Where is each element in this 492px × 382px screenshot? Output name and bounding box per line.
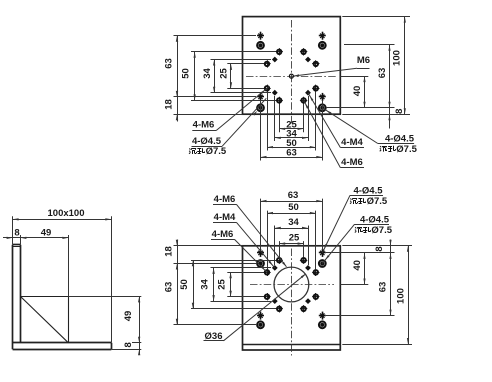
svg-text:Ø7.5: Ø7.5 <box>367 196 388 207</box>
svg-text:25: 25 <box>219 68 230 79</box>
svg-text:100: 100 <box>391 50 402 66</box>
svg-text:63: 63 <box>286 148 297 159</box>
svg-text:50: 50 <box>288 202 299 213</box>
svg-text:8: 8 <box>14 227 19 238</box>
svg-text:Ø7.5: Ø7.5 <box>206 146 227 157</box>
svg-text:63: 63 <box>288 190 299 201</box>
svg-text:Ø36: Ø36 <box>205 331 223 342</box>
svg-text:63: 63 <box>378 282 389 293</box>
svg-text:25: 25 <box>217 279 228 290</box>
svg-text:50: 50 <box>179 279 190 290</box>
svg-text:4-M4: 4-M4 <box>341 137 363 148</box>
svg-text:4-Ø4.5: 4-Ø4.5 <box>360 214 390 225</box>
svg-text:M6: M6 <box>357 55 370 66</box>
svg-text:40: 40 <box>352 260 363 271</box>
svg-text:4-M6: 4-M6 <box>212 229 234 240</box>
svg-text:40: 40 <box>352 86 363 97</box>
svg-text:63: 63 <box>377 68 388 79</box>
svg-text:100x100: 100x100 <box>48 208 85 219</box>
svg-text:34: 34 <box>202 68 213 79</box>
svg-text:Ø7.5: Ø7.5 <box>396 144 417 155</box>
svg-text:8: 8 <box>123 342 134 347</box>
svg-text:4-Ø4.5: 4-Ø4.5 <box>353 185 383 196</box>
svg-text:18: 18 <box>164 246 175 257</box>
svg-text:4-M6: 4-M6 <box>341 157 363 168</box>
svg-text:4-M6: 4-M6 <box>214 194 236 205</box>
svg-text:Ø7.5: Ø7.5 <box>371 225 392 236</box>
svg-text:63: 63 <box>164 58 175 69</box>
svg-text:4-M4: 4-M4 <box>214 212 236 223</box>
svg-text:50: 50 <box>181 68 192 79</box>
svg-text:34: 34 <box>200 279 211 290</box>
svg-text:8: 8 <box>394 109 405 114</box>
svg-text:34: 34 <box>288 217 299 228</box>
svg-text:4-M6: 4-M6 <box>193 120 215 131</box>
svg-text:49: 49 <box>41 227 52 238</box>
svg-text:63: 63 <box>164 282 175 293</box>
svg-text:25: 25 <box>289 232 300 243</box>
svg-text:100: 100 <box>396 288 407 304</box>
svg-text:8: 8 <box>374 246 385 251</box>
svg-text:18: 18 <box>164 99 175 110</box>
svg-text:49: 49 <box>123 311 134 322</box>
